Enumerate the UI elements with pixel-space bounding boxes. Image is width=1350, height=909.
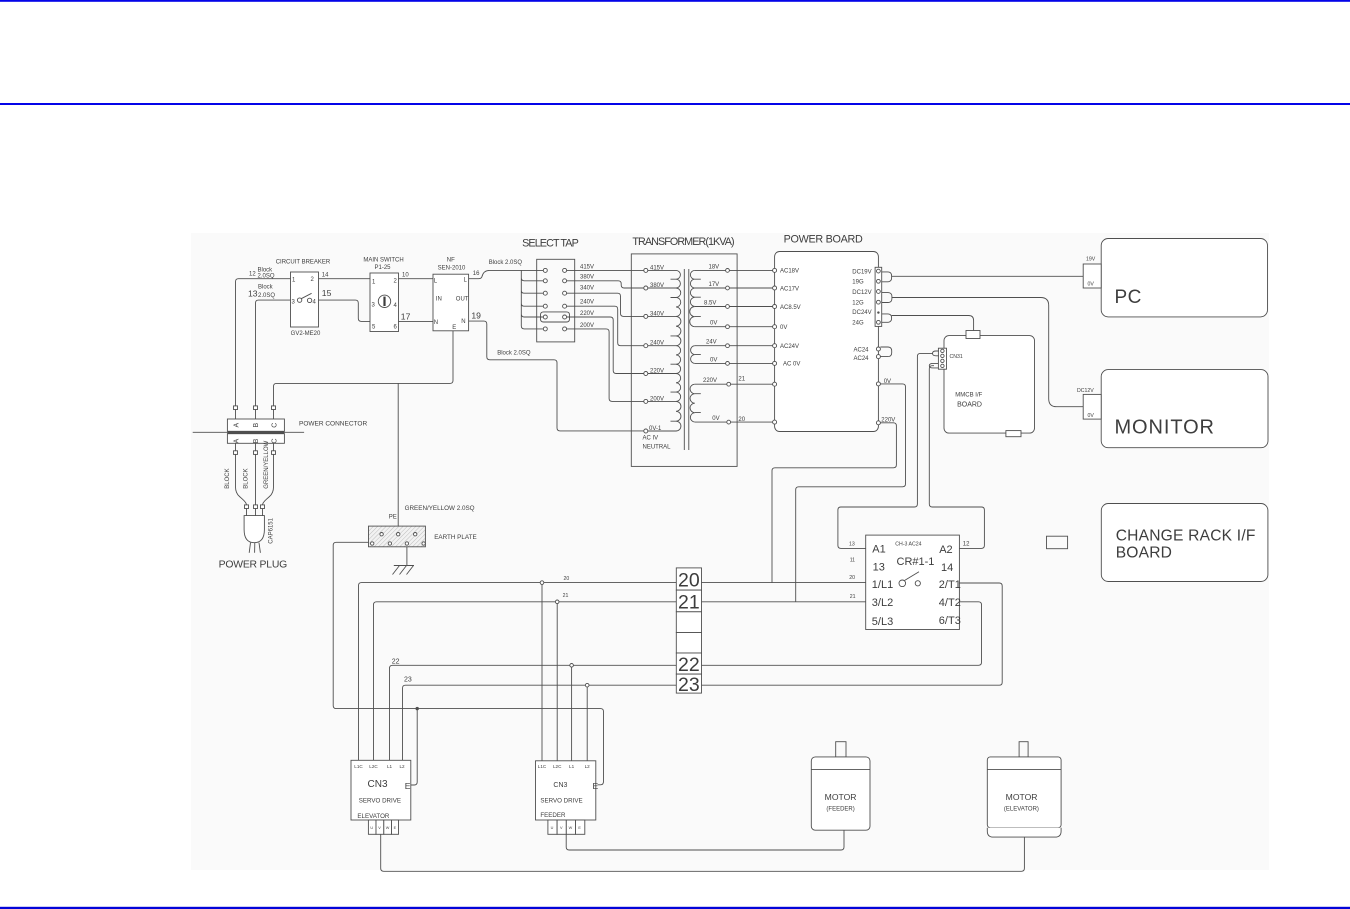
crimp bead A upper	[234, 406, 238, 410]
wire secondary 0V tap to power board	[695, 321, 773, 329]
wire label Block 2.0SQ	[258, 285, 275, 300]
svg-text:CAP6151: CAP6151	[268, 517, 274, 543]
MONITOR connector tab	[1077, 388, 1101, 419]
power board pin AC 0V	[773, 361, 801, 367]
power board pin 0V right	[876, 379, 891, 386]
transformer primary terminal 340V	[644, 311, 664, 318]
breaker NF SEN-2010	[433, 258, 469, 331]
wire drive2 L1 drop	[571, 667, 573, 761]
svg-text:SERVO DRIVE: SERVO DRIVE	[540, 797, 582, 804]
svg-text:12G: 12G	[852, 301, 864, 307]
svg-text:B: B	[253, 438, 260, 443]
power board DC connector strip	[875, 267, 882, 326]
wire terminal 22 bus left to servo drive L1	[390, 665, 677, 760]
svg-text:12: 12	[963, 542, 970, 548]
svg-text:BOARD: BOARD	[1116, 545, 1172, 562]
wire main switch pin2 to NF L	[399, 278, 434, 280]
svg-text:0V: 0V	[710, 357, 717, 363]
wire CN31 to relay A2	[929, 366, 984, 549]
svg-text:21: 21	[850, 594, 856, 600]
MMCB I/F board U2	[944, 336, 1035, 434]
svg-text:L2: L2	[585, 764, 591, 769]
svg-text:DC12V: DC12V	[1077, 388, 1094, 394]
wire terminal 20 to relay 1/L1	[702, 582, 866, 584]
svg-text:CIRCUIT BREAKER: CIRCUIT BREAKER	[276, 260, 331, 266]
svg-text:24V: 24V	[706, 340, 717, 346]
svg-text:0V: 0V	[710, 321, 717, 327]
wire breaker pin2 to main switch pin1	[319, 278, 371, 280]
wire drive1 V to elevator motor	[381, 834, 1025, 871]
svg-text:20: 20	[564, 576, 570, 582]
svg-text:A2: A2	[939, 544, 952, 556]
wire terminal 21 bus left to servo drive L2C	[374, 602, 677, 761]
wire secondary 17V tap to power board	[695, 282, 773, 290]
crimp bead B plug	[254, 505, 258, 509]
MONITOR box	[1101, 370, 1268, 448]
wire main switch pin6 to NF N	[399, 320, 434, 322]
power board AC24 pins	[854, 347, 881, 362]
connector tab DC12V/12G	[882, 293, 892, 303]
svg-text:E: E	[578, 826, 581, 830]
svg-text:L2: L2	[399, 764, 405, 769]
svg-text:15: 15	[322, 288, 332, 298]
svg-text:5/L3: 5/L3	[872, 616, 893, 628]
svg-text:E: E	[593, 781, 599, 791]
MMCB board bottom tab	[1006, 431, 1021, 437]
svg-text:W: W	[386, 826, 390, 830]
svg-text:MOTOR: MOTOR	[825, 792, 857, 802]
svg-text:14: 14	[941, 562, 953, 574]
wire terminal 22 to relay 4/T2	[702, 602, 982, 666]
svg-text:10: 10	[402, 272, 409, 278]
svg-text:AC24: AC24	[854, 347, 870, 353]
motor (feeder) M1	[811, 742, 870, 831]
transformer primary terminal 380V	[644, 283, 664, 290]
svg-text:E: E	[394, 826, 397, 830]
transformer primary winding	[676, 270, 681, 431]
svg-text:SERVO DRIVE: SERVO DRIVE	[359, 797, 401, 804]
wire secondary 0V tap to power board	[695, 357, 773, 365]
wire drive2 L2C drop	[556, 604, 558, 761]
crimp bead A plug	[245, 505, 249, 509]
svg-text:22: 22	[392, 658, 400, 665]
connector tab AC24	[880, 347, 891, 357]
transformer primary terminal 240V	[644, 341, 664, 348]
power board pin AC17V	[773, 286, 799, 292]
wire phase A from breaker to power connector	[236, 279, 291, 419]
wire select tap 220V to transformer	[567, 311, 644, 374]
power connector upper half	[227, 419, 284, 431]
main switch SW1 P1-25	[363, 258, 403, 332]
junction node drive2 L1C on 20 bus	[540, 581, 544, 585]
wire phase B from breaker to power connector	[256, 300, 291, 419]
power board pin AC24V	[773, 344, 799, 350]
svg-text:Block 2.0SQ: Block 2.0SQ	[489, 260, 523, 266]
svg-text:EARTH PLATE: EARTH PLATE	[434, 534, 476, 541]
svg-text:24G: 24G	[852, 321, 864, 327]
connector CN31	[938, 348, 962, 369]
svg-text:19V: 19V	[1086, 257, 1096, 263]
crimp bead C upper	[272, 406, 276, 410]
svg-text:22: 22	[678, 654, 700, 676]
svg-text:23: 23	[404, 677, 412, 684]
PC connector tab	[1083, 257, 1101, 288]
svg-text:MONITOR: MONITOR	[1115, 417, 1215, 439]
wire NF N out (neutral 19) to transformer 0V-1	[469, 321, 644, 431]
wire primary taps to winding	[648, 270, 676, 431]
CHANGE RACK I/F BOARD box	[1101, 504, 1268, 582]
svg-text:380V: 380V	[580, 275, 594, 281]
transformer T1 1KVA	[631, 236, 737, 466]
svg-text:B: B	[253, 423, 260, 428]
wire drive2 L1C drop	[541, 584, 543, 760]
svg-text:21: 21	[678, 591, 700, 613]
wire NF E to power connector C and earth junction	[274, 331, 454, 419]
svg-text:MAIN SWITCH: MAIN SWITCH	[363, 258, 403, 264]
svg-text:L1: L1	[387, 764, 393, 769]
svg-text:GREEN/YELLOW: GREEN/YELLOW	[264, 440, 270, 488]
select tap connector ST1	[522, 238, 579, 342]
terminal block cells	[676, 568, 701, 696]
svg-text:240V: 240V	[580, 299, 594, 305]
servo drive 1 (elevator)	[351, 760, 411, 820]
wire secondary 24V tap to power board	[695, 340, 773, 348]
select tap jumper plug on 220V row	[541, 312, 570, 322]
power board pin 0V	[773, 325, 788, 331]
svg-text:A: A	[234, 438, 241, 443]
transformer secondary winding group 2	[691, 346, 695, 364]
crimp bead A lower	[234, 451, 238, 455]
wire drive2 L2 drop	[586, 687, 588, 761]
earth plate	[369, 526, 426, 547]
power board U1	[775, 234, 879, 432]
svg-text:340V: 340V	[580, 285, 594, 291]
svg-text:CH-3 AC24: CH-3 AC24	[895, 541, 921, 547]
junction node drive2 L2 on 23 bus	[585, 683, 589, 687]
svg-text:AC24: AC24	[854, 356, 870, 362]
wire select tap 380V to transformer	[567, 275, 644, 288]
power connector mating line	[193, 431, 304, 433]
CN31 stub plug upper	[933, 351, 939, 356]
bottom blue bar	[0, 907, 1350, 909]
svg-text:17V: 17V	[709, 282, 720, 288]
svg-text:U: U	[551, 826, 554, 830]
svg-text:21: 21	[738, 377, 745, 383]
secondary group2 stub	[695, 354, 701, 356]
top blue bar	[0, 0, 1350, 2]
wire terminal 20 bus left to servo drive L1C	[359, 583, 677, 761]
svg-text:P1-25: P1-25	[374, 265, 391, 271]
svg-text:20: 20	[678, 570, 700, 592]
power plug CAP6151 body	[244, 516, 264, 543]
power board pin AC18V	[773, 268, 799, 274]
wire earth plate to servo drive ground bus	[333, 542, 603, 785]
svg-text:W: W	[569, 826, 573, 830]
transformer primary terminal 200V	[644, 396, 664, 403]
secondary group3 stubs	[695, 394, 701, 413]
svg-text:220V: 220V	[580, 311, 594, 317]
svg-text:AC24V: AC24V	[780, 344, 799, 350]
svg-text:L1C: L1C	[538, 764, 547, 769]
svg-text:E: E	[405, 781, 411, 791]
svg-text:NF: NF	[447, 258, 455, 264]
svg-text:POWER PLUG: POWER PLUG	[219, 560, 288, 571]
transformer primary terminal 0V-1 / AC 1V NEUTRAL	[643, 426, 672, 451]
svg-text:ELEVATOR: ELEVATOR	[357, 813, 390, 820]
wire DC24V to MMCB board	[892, 316, 974, 331]
svg-text:FEEDER: FEEDER	[540, 812, 566, 819]
svg-text:CN3: CN3	[553, 782, 567, 789]
svg-text:8.5V: 8.5V	[704, 301, 716, 307]
wire secondary 18V tap to power board	[695, 264, 773, 272]
svg-text:C: C	[271, 423, 278, 428]
svg-text:0V: 0V	[1088, 282, 1095, 288]
svg-text:12: 12	[249, 272, 256, 278]
svg-text:L1: L1	[569, 764, 575, 769]
transformer primary terminal 220V	[644, 368, 664, 375]
transformer primary winding stubs	[671, 279, 677, 421]
svg-text:PE: PE	[389, 515, 397, 521]
wire terminal 23 to relay 2/T1	[702, 583, 1003, 685]
svg-text:U: U	[370, 826, 373, 830]
svg-text:DC24V: DC24V	[852, 310, 871, 316]
PC box	[1101, 239, 1267, 317]
svg-text:L2C: L2C	[369, 764, 378, 769]
wire 0V to terminal 21 bus	[796, 384, 906, 602]
wire NF L out to select tap	[469, 270, 544, 278]
svg-text:TRANSFORMER(1KVA): TRANSFORMER(1KVA)	[632, 236, 734, 248]
wire B below connector	[255, 443, 257, 515]
svg-text:(FEEDER): (FEEDER)	[826, 807, 854, 813]
ground symbol	[393, 547, 415, 575]
svg-text:1/L1: 1/L1	[872, 579, 893, 591]
svg-text:CHANGE RACK I/F: CHANGE RACK I/F	[1116, 528, 1256, 545]
svg-text:4/T2: 4/T2	[939, 597, 961, 609]
header separator blue bar	[0, 103, 1350, 105]
svg-text:MMCB I/F: MMCB I/F	[955, 392, 982, 398]
contactor CR#1-1	[866, 535, 961, 629]
svg-text:18V: 18V	[709, 264, 720, 270]
svg-text:E: E	[452, 325, 456, 331]
power connector lower half	[227, 434, 284, 444]
svg-text:17: 17	[401, 311, 411, 321]
transformer secondary winding group 1	[690, 270, 695, 326]
svg-text:13: 13	[248, 289, 258, 299]
transformer core	[684, 269, 689, 450]
svg-text:IN: IN	[436, 297, 442, 303]
wire earth junction down to earth plate PE	[397, 383, 399, 526]
wire DC19V to PC	[892, 275, 1084, 277]
power board pin 220V right	[876, 417, 895, 425]
power board pin 20	[773, 420, 777, 424]
svg-text:11: 11	[850, 558, 855, 564]
svg-text:0V: 0V	[1088, 413, 1095, 419]
wire C below connector	[263, 443, 274, 515]
wire select tap 340V to transformer	[567, 285, 644, 316]
circuit breaker CB1 GV2-ME20	[276, 260, 331, 338]
svg-text:MOTOR: MOTOR	[1006, 792, 1038, 802]
junction node drive1 E on ground bus	[416, 707, 419, 710]
wire DC12V to MONITOR	[892, 298, 1083, 407]
svg-text:N: N	[461, 319, 465, 325]
connector tab DC24V/24G	[882, 314, 892, 322]
connector tab DC19V/19G	[882, 272, 892, 282]
svg-text:A: A	[234, 423, 241, 428]
svg-text:CN31: CN31	[950, 354, 963, 360]
svg-text:L2C: L2C	[553, 764, 562, 769]
power board pin 21	[773, 382, 777, 386]
svg-text:19G: 19G	[852, 280, 864, 286]
wire ground bus to drive1 E	[410, 709, 417, 785]
svg-text:GV2-ME20: GV2-ME20	[291, 331, 321, 337]
svg-text:GREEN/YELLOW 2.0SQ: GREEN/YELLOW 2.0SQ	[405, 505, 475, 512]
svg-text:BLOCK: BLOCK	[225, 468, 231, 488]
wire select tap 200V to transformer	[567, 323, 644, 402]
transformer primary terminal 415V	[644, 265, 664, 272]
svg-text:21: 21	[563, 593, 569, 599]
svg-text:415V: 415V	[580, 264, 594, 270]
power board pin AC8.5V	[773, 305, 801, 311]
svg-text:SELECT TAP: SELECT TAP	[522, 238, 579, 250]
svg-text:BOARD: BOARD	[957, 402, 982, 409]
svg-text:AC18V: AC18V	[780, 269, 799, 275]
svg-text:AC IV: AC IV	[643, 436, 659, 442]
servo drive 1 bottom terminal tabs	[368, 820, 398, 834]
svg-text:PC: PC	[1115, 287, 1142, 308]
svg-text:C: C	[271, 438, 278, 443]
svg-text:2/T1: 2/T1	[939, 579, 961, 591]
svg-text:AC17V: AC17V	[780, 286, 799, 292]
svg-text:CR#1-1: CR#1-1	[897, 556, 935, 568]
svg-text:POWER BOARD: POWER BOARD	[784, 234, 863, 246]
wire 220V to terminal 20 bus	[772, 423, 896, 583]
svg-text:23: 23	[678, 674, 700, 696]
svg-text:(ELEVATOR): (ELEVATOR)	[1004, 807, 1039, 813]
svg-text:OUT: OUT	[456, 297, 469, 303]
diagram background panel	[191, 233, 1269, 870]
servo drive 2 bottom terminal tabs	[548, 820, 585, 834]
svg-text:20: 20	[849, 575, 855, 581]
svg-text:A1: A1	[872, 543, 885, 555]
wire secondary 0V tap (20) to power board	[695, 416, 773, 424]
svg-text:DC12V: DC12V	[852, 290, 871, 296]
crimp bead B upper	[254, 406, 258, 410]
svg-text:NEUTRAL: NEUTRAL	[643, 445, 672, 451]
servo drive 2 (feeder)	[536, 761, 599, 820]
svg-text:CN3: CN3	[368, 779, 388, 790]
secondary group1 stubs	[695, 279, 701, 316]
svg-text:Block 2.0SQ: Block 2.0SQ	[497, 351, 531, 357]
svg-text:16: 16	[473, 271, 480, 277]
svg-text:13: 13	[849, 542, 855, 548]
svg-text:220V: 220V	[703, 378, 717, 384]
svg-text:AC8.5V: AC8.5V	[780, 305, 801, 311]
wire select tap 415V to transformer	[567, 264, 644, 270]
motor (elevator) M2	[987, 742, 1061, 837]
crimp bead B lower	[254, 451, 258, 455]
select tap feed vertical with row stubs	[521, 270, 543, 329]
svg-text:AC 0V: AC 0V	[783, 362, 800, 368]
wire label Block 2.0SQ	[258, 268, 275, 280]
svg-text:200V: 200V	[580, 323, 594, 329]
wire select tap 240V to transformer	[567, 299, 644, 345]
wire terminal 21 to relay 3/L2	[702, 601, 866, 603]
svg-text:N: N	[434, 320, 438, 326]
wire secondary 220V tap (21) to power board	[695, 377, 773, 387]
svg-text:6/T3: 6/T3	[939, 615, 961, 627]
wire A below connector	[236, 443, 247, 515]
wire CN31 to relay A1	[838, 353, 933, 548]
svg-text:L1C: L1C	[354, 764, 363, 769]
svg-text:19: 19	[471, 311, 481, 321]
svg-text:13: 13	[873, 562, 885, 574]
junction node drive2 L2C on 21 bus	[555, 600, 559, 604]
wire secondary 8.5V tap to power board	[695, 301, 773, 309]
svg-text:3/L2: 3/L2	[872, 597, 893, 609]
power plug prongs	[249, 543, 260, 553]
svg-text:POWER CONNECTOR: POWER CONNECTOR	[299, 420, 367, 427]
svg-text:BLOCK: BLOCK	[244, 468, 250, 488]
connector rect near change rack board	[1047, 536, 1068, 549]
svg-text:2.0SQ: 2.0SQ	[258, 293, 275, 299]
svg-text:SEN-2010: SEN-2010	[438, 266, 466, 272]
svg-text:14: 14	[322, 272, 329, 278]
wire breaker pin4 to main switch pin5	[319, 300, 371, 321]
transformer secondary winding group 3	[690, 384, 695, 422]
svg-text:DC19V: DC19V	[852, 269, 871, 275]
wire terminal 23 bus left to servo drive L2	[403, 685, 677, 760]
wire drive2 V to feeder motor	[566, 830, 844, 850]
junction node drive2 L1 on 22 bus	[570, 664, 574, 668]
svg-text:0V: 0V	[712, 416, 719, 422]
crimp bead C plug	[261, 505, 265, 509]
svg-text:0V: 0V	[780, 325, 787, 331]
crimp bead C lower	[272, 451, 276, 455]
svg-text:Block: Block	[258, 285, 274, 291]
MMCB board top tab	[966, 331, 980, 339]
CN31 stub plug lower	[929, 363, 938, 368]
